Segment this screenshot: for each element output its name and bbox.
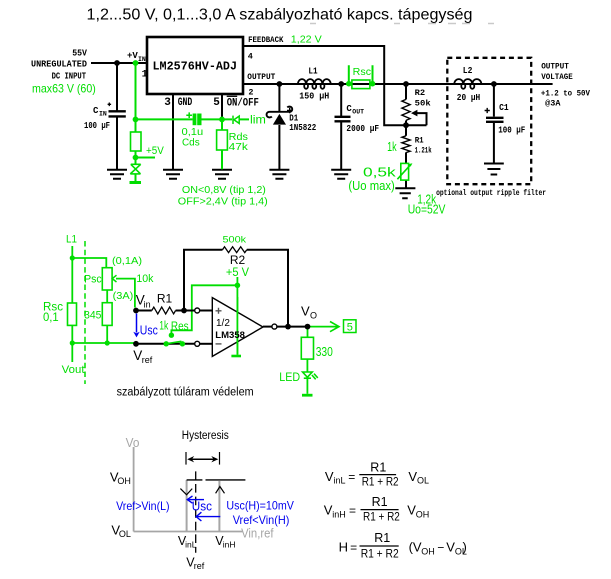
- svg-text:=: =: [348, 470, 355, 484]
- svg-text:R2: R2: [415, 89, 426, 98]
- svg-text:Psc: Psc: [84, 273, 102, 285]
- svg-text:Uo=52V: Uo=52V: [408, 203, 446, 217]
- svg-text:LM2576HV-ADJ: LM2576HV-ADJ: [153, 61, 238, 74]
- svg-text:Vref<Vin(H): Vref<Vin(H): [233, 513, 290, 527]
- svg-text:OL: OL: [119, 529, 131, 539]
- svg-text:LM358: LM358: [215, 330, 245, 340]
- svg-text:R1 + R2: R1 + R2: [362, 475, 399, 489]
- svg-text:1k: 1k: [159, 320, 168, 332]
- svg-text:Usc: Usc: [192, 499, 212, 513]
- svg-text:D1: D1: [289, 114, 298, 124]
- svg-text:Cds: Cds: [182, 137, 200, 149]
- svg-text:max63 V (60): max63 V (60): [32, 82, 96, 96]
- svg-text:1.21k: 1.21k: [415, 147, 432, 156]
- svg-text:ON<0,8V (tip 1,2): ON<0,8V (tip 1,2): [182, 184, 266, 196]
- svg-text:in: in: [144, 299, 151, 309]
- svg-text:szabályzott túláram védelem: szabályzott túláram védelem: [117, 387, 254, 399]
- svg-text:OH: OH: [117, 476, 130, 486]
- svg-text:1: 1: [142, 70, 148, 81]
- svg-text:330: 330: [316, 345, 333, 359]
- svg-text:(3A): (3A): [113, 290, 134, 302]
- svg-text:Vout: Vout: [62, 364, 85, 376]
- svg-text:2000 μF: 2000 μF: [346, 124, 379, 134]
- svg-text:5: 5: [347, 321, 353, 333]
- svg-text:=: =: [349, 504, 356, 518]
- svg-text:Usc(H)=10mV: Usc(H)=10mV: [226, 498, 294, 512]
- svg-text:OUTPUT: OUTPUT: [247, 72, 275, 82]
- svg-text:V: V: [301, 304, 310, 319]
- svg-text:LED: LED: [279, 370, 300, 384]
- svg-text:+V: +V: [127, 51, 138, 61]
- svg-text:1N5822: 1N5822: [289, 123, 316, 133]
- svg-text:20 μH: 20 μH: [457, 93, 480, 103]
- svg-text:1k: 1k: [387, 140, 397, 154]
- svg-text:L1: L1: [66, 234, 77, 246]
- svg-text:R1: R1: [157, 291, 173, 305]
- svg-text:OL: OL: [417, 476, 429, 486]
- svg-text:lim: lim: [250, 113, 266, 127]
- svg-text:FEEDBACK: FEEDBACK: [248, 35, 284, 45]
- svg-text:+5V: +5V: [146, 145, 164, 157]
- svg-text:inH: inH: [223, 540, 236, 550]
- svg-text:47k: 47k: [229, 141, 249, 153]
- svg-text:Vin,ref: Vin,ref: [241, 527, 274, 541]
- svg-text:L2: L2: [463, 66, 473, 76]
- svg-text:R1 + R2: R1 + R2: [363, 510, 400, 524]
- svg-text:R1: R1: [372, 495, 388, 509]
- svg-text:R1: R1: [370, 461, 386, 475]
- svg-text:optional output ripple filter: optional output ripple filter: [436, 188, 546, 198]
- svg-text:VOLTAGE: VOLTAGE: [541, 73, 573, 82]
- svg-text:H: H: [339, 540, 348, 555]
- svg-text:GND: GND: [178, 97, 193, 109]
- svg-text:1,22 V: 1,22 V: [291, 34, 322, 46]
- svg-text:OUT: OUT: [352, 109, 364, 116]
- svg-text:DC INPUT: DC INPUT: [52, 70, 87, 81]
- svg-text:L1: L1: [308, 67, 318, 77]
- svg-text:(V: (V: [409, 540, 422, 555]
- svg-text:R1: R1: [374, 531, 390, 545]
- svg-text:(0,1A): (0,1A): [112, 255, 142, 267]
- svg-text:0,1: 0,1: [43, 312, 59, 324]
- svg-text:0,5k: 0,5k: [363, 165, 396, 180]
- svg-text:Vo: Vo: [126, 436, 140, 450]
- svg-text:=: =: [350, 541, 357, 555]
- svg-text:10k: 10k: [136, 273, 154, 285]
- svg-text:inH: inH: [332, 509, 346, 519]
- svg-text:55V: 55V: [72, 49, 87, 59]
- svg-text:+5 V: +5 V: [226, 267, 249, 279]
- svg-text:): ): [463, 540, 467, 555]
- svg-text:OFF>2,4V (tip 1,4): OFF>2,4V (tip 1,4): [178, 196, 268, 208]
- svg-text:@3A: @3A: [545, 100, 561, 109]
- svg-text:Rsc: Rsc: [353, 67, 371, 78]
- svg-text:inL: inL: [334, 476, 346, 486]
- svg-text:IN: IN: [99, 111, 107, 118]
- svg-text:(Uo max): (Uo max): [348, 179, 394, 193]
- svg-text:Hysteresis: Hysteresis: [182, 430, 229, 442]
- svg-text:345: 345: [84, 310, 101, 322]
- svg-text:5: 5: [213, 97, 220, 109]
- svg-text:100 μF: 100 μF: [498, 126, 525, 136]
- svg-text:C1: C1: [499, 103, 509, 113]
- svg-text:OUTPUT: OUTPUT: [541, 63, 569, 72]
- svg-text:IN: IN: [138, 56, 146, 63]
- svg-text:1/2: 1/2: [216, 318, 230, 329]
- svg-text:UNREGULATED: UNREGULATED: [31, 59, 87, 70]
- svg-text:Usc: Usc: [140, 323, 158, 338]
- svg-text:500k: 500k: [223, 235, 247, 246]
- svg-text:inL: inL: [185, 540, 197, 550]
- svg-text:Res: Res: [171, 321, 189, 333]
- svg-text:O: O: [310, 310, 317, 320]
- svg-text:ref: ref: [142, 355, 153, 365]
- svg-text:3: 3: [164, 97, 171, 109]
- svg-text:R1 + R2: R1 + R2: [361, 547, 399, 561]
- svg-text:+1.2 to 50V: +1.2 to 50V: [541, 90, 590, 99]
- svg-text:100 μF: 100 μF: [84, 121, 110, 131]
- svg-text:OH: OH: [416, 509, 430, 519]
- svg-text:OH: OH: [421, 546, 435, 556]
- svg-text:ref: ref: [194, 561, 205, 571]
- svg-text:50k: 50k: [415, 99, 431, 108]
- svg-text:1,2...50 V, 0,1...3,0 A szabál: 1,2...50 V, 0,1...3,0 A szabályozható ka…: [87, 7, 473, 24]
- svg-text:R2: R2: [230, 253, 246, 267]
- svg-text:4: 4: [248, 52, 253, 62]
- svg-text:Vref>Vin(L): Vref>Vin(L): [116, 499, 170, 513]
- svg-text:−: −: [437, 541, 444, 555]
- svg-text:R1: R1: [415, 137, 424, 146]
- svg-text:2: 2: [248, 88, 253, 98]
- svg-text:150 μH: 150 μH: [299, 92, 329, 102]
- svg-text:ON/OFF: ON/OFF: [227, 97, 259, 109]
